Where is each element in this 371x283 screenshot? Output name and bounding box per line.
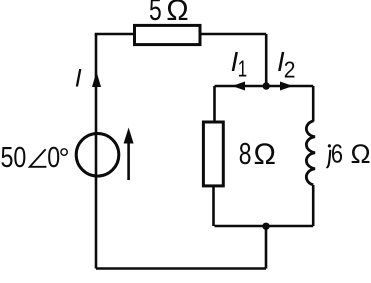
current I2 arrowhead [280,82,293,91]
wire right branch upper [312,86,315,122]
svg-text:2: 2 [284,56,296,82]
inductor L1 coil [306,121,315,185]
node B junction dot [262,223,269,230]
node A junction dot [263,82,270,89]
svg-text:Ω: Ω [166,0,188,27]
wire drop from top-right corner to node A [265,34,268,86]
angle symbol [30,149,47,167]
svg-text:6: 6 [331,140,343,169]
svg-text:1: 1 [238,56,247,82]
svg-text:°: ° [59,143,70,174]
svg-text:Ω: Ω [254,138,276,171]
svg-text:5: 5 [149,0,162,27]
current I arrowhead [92,72,101,88]
source V1 circle [76,134,119,177]
label j6 ohm [328,144,331,147]
source V1 reference arrow [124,128,134,181]
label 8 ohm [239,137,252,171]
wire resistor R1 to top-right corner [201,33,267,36]
wire bottom return [96,267,266,270]
label source value 50 angle 0 deg [1,141,27,174]
svg-text:8: 8 [239,137,252,171]
wire right branch lower [312,185,315,226]
label 5 ohm [149,0,162,27]
wire bottom rail of parallel section [215,225,314,228]
wire left branch lower [212,186,215,226]
wire left vertical (source branch) [95,34,98,269]
svg-text:Ω: Ω [351,139,371,169]
wire top left to resistor R1 [95,33,134,36]
resistor R2 8-ohm body [203,122,223,186]
svg-text:I: I [75,64,82,92]
wire left branch upper [213,86,216,122]
svg-text:50: 50 [1,141,27,174]
wire top rail of parallel section [215,85,314,88]
resistor R1 5-ohm body [135,25,201,44]
current I1 arrowhead [232,82,245,91]
wire drop from node B to bottom wire [265,226,268,269]
